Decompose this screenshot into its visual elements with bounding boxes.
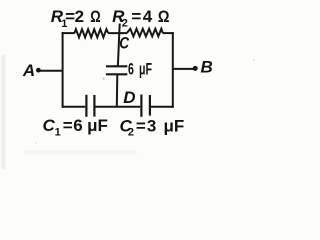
wire bottom-right segment	[151, 106, 174, 108]
faint scan streak bottom	[25, 150, 137, 155]
label C1 = 6 uF	[43, 116, 108, 138]
faint scan speck near middle capacitor	[103, 78, 105, 80]
label R1 = 2 ohm	[51, 7, 101, 30]
wire left vertical	[62, 32, 64, 108]
wire top-right segment	[163, 32, 174, 34]
wire terminal A	[40, 70, 64, 72]
svg-text:Ω: Ω	[158, 7, 170, 26]
svg-text:=: =	[131, 7, 141, 26]
wire node C vertical (with tick above top wire)	[118, 24, 120, 66]
svg-text:B: B	[201, 57, 213, 76]
svg-text:μF: μF	[139, 59, 152, 78]
svg-text:6: 6	[128, 59, 134, 78]
faint scan streak left edge	[2, 55, 6, 169]
svg-text:C: C	[119, 34, 129, 53]
svg-text:Ω: Ω	[90, 7, 100, 26]
wire bottom-middle segment	[95, 106, 140, 108]
wire top-middle segment	[108, 32, 127, 34]
label 6 uF (middle capacitor)	[128, 59, 152, 78]
wire bottom-left segment	[62, 106, 86, 108]
wire right vertical	[172, 32, 174, 108]
capacitor C3 (6 uF)	[106, 66, 127, 74]
resistor R1	[74, 29, 108, 37]
resistor R2	[127, 29, 163, 37]
svg-text:μF: μF	[87, 116, 108, 135]
svg-text:C: C	[43, 116, 56, 135]
wire middle capacitor to node D	[116, 75, 119, 107]
svg-text:4: 4	[143, 7, 153, 26]
svg-text:1: 1	[55, 126, 61, 138]
svg-text:=: =	[65, 7, 75, 26]
svg-text:2: 2	[122, 17, 128, 29]
svg-text:2: 2	[75, 7, 84, 26]
svg-text:D: D	[123, 88, 135, 107]
svg-text:=: =	[63, 116, 73, 135]
capacitor C2	[141, 95, 150, 117]
label R2 = 4 ohm	[112, 7, 169, 29]
svg-text:6: 6	[73, 116, 82, 135]
capacitor C1	[86, 95, 94, 117]
wire top-left segment	[62, 32, 75, 34]
svg-text:2: 2	[128, 126, 134, 138]
svg-text:A: A	[22, 61, 35, 80]
svg-text:3: 3	[147, 116, 156, 135]
wire terminal B	[173, 68, 194, 70]
label C2 = 3 uF	[120, 116, 185, 138]
terminal dot B	[193, 66, 198, 71]
svg-text:=: =	[136, 116, 146, 135]
terminal dot A	[36, 68, 41, 73]
svg-text:μF: μF	[164, 116, 185, 135]
